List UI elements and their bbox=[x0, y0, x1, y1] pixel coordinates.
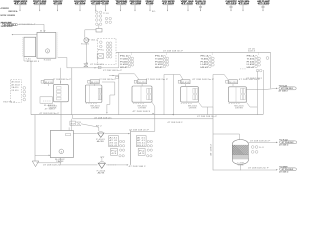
wire V-5 product line to oval tag O-1 bbox=[246, 88, 277, 90]
svg-text:DRYER: DRYER bbox=[189, 107, 198, 109]
svg-text:AT 4102: AT 4102 bbox=[11, 83, 20, 86]
label box above V-3 bbox=[134, 79, 169, 86]
svg-text:4T 108 2: 4T 108 2 bbox=[279, 91, 288, 93]
wire from T-1 bottom left down bbox=[24, 57, 31, 61]
svg-text:T-41: T-41 bbox=[25, 58, 31, 60]
wire V-5 outlet drop bbox=[246, 102, 257, 107]
vessel T-1 small tank bbox=[23, 37, 36, 56]
stirred tank B-1 bbox=[50, 127, 73, 157]
wire V-1 drop through headers into B-1 bbox=[60, 102, 62, 131]
instrument cluster station 3 bbox=[155, 53, 169, 69]
wire feed bridge to V-5 label box bbox=[213, 75, 228, 108]
svg-text:41: 41 bbox=[139, 153, 144, 155]
single instrument circle right of station 5 bbox=[266, 57, 269, 60]
svg-text:FIC 4: FIC 4 bbox=[247, 56, 255, 58]
wire dashes left of station 5 bbox=[240, 68, 246, 70]
wire vertical from header to feed line bbox=[118, 53, 120, 68]
svg-text:ST-4021: ST-4021 bbox=[81, 44, 89, 46]
wire left vertical drop to flag bbox=[34, 115, 36, 161]
arrow line out of reactor left side bbox=[12, 34, 38, 35]
svg-text:M-410: M-410 bbox=[182, 82, 190, 84]
svg-text:FIC 4: FIC 4 bbox=[201, 56, 209, 58]
header label text right bbox=[248, 49, 255, 53]
svg-text:TI 410: TI 410 bbox=[120, 59, 128, 61]
svg-text:LI 410: LI 410 bbox=[201, 64, 209, 66]
label under V-2 bbox=[86, 103, 100, 109]
drawing note text top-left bbox=[1, 8, 19, 17]
svg-text:HS 41: HS 41 bbox=[155, 67, 163, 69]
svg-text:K-4101: K-4101 bbox=[44, 105, 55, 107]
top inlet stream tag 12 with down arrow bbox=[195, 1, 207, 11]
svg-text:M-410: M-410 bbox=[229, 82, 237, 84]
wire V-4 outlet drop bbox=[198, 102, 213, 107]
svg-text:AT 41: AT 41 bbox=[137, 139, 145, 142]
svg-text:4T 051 2: 4T 051 2 bbox=[88, 39, 98, 41]
wire reactor bottom to left header drop bbox=[30, 61, 32, 115]
svg-text:M-410: M-410 bbox=[138, 82, 146, 84]
svg-text:4T 108 2: 4T 108 2 bbox=[211, 144, 213, 156]
svg-text:TO V-42: TO V-42 bbox=[279, 85, 288, 87]
wire station5 drops to bottom header bbox=[257, 70, 263, 115]
svg-text:TO WWT: TO WWT bbox=[279, 166, 289, 168]
svg-text:PI 410: PI 410 bbox=[120, 61, 128, 63]
control valve V-b bowtie bbox=[84, 64, 88, 67]
top inlet stream tag 8 with down arrow bbox=[130, 1, 143, 11]
svg-text:TI 410: TI 410 bbox=[155, 59, 163, 61]
svg-text:4T 208 108 2in P: 4T 208 108 2in P bbox=[53, 79, 72, 81]
instrument cluster station 2 bbox=[120, 53, 134, 69]
reactor R-1 agitated vessel bbox=[37, 31, 58, 59]
svg-text:NOTE 1 FEEDS: NOTE 1 FEEDS bbox=[1, 15, 16, 17]
svg-text:4T 208 108 3in P: 4T 208 108 3in P bbox=[163, 50, 184, 52]
svg-text:PI 410: PI 410 bbox=[155, 61, 163, 63]
label under V-4 bbox=[181, 103, 198, 109]
wire header drop right end bbox=[270, 53, 272, 89]
instrument cluster station 5 bbox=[247, 53, 261, 69]
top inlet stream tag 4 with down arrow bbox=[74, 1, 87, 11]
wire tag A to reactor top bbox=[18, 24, 44, 32]
svg-text:4T 208 108 2in P: 4T 208 108 2in P bbox=[192, 79, 215, 81]
wire B-1 bottom to pump P-2 bbox=[61, 158, 98, 165]
pump P-2 bbox=[98, 161, 105, 168]
flag connector bottom left bbox=[32, 161, 39, 167]
wire valve V-a down to valve V-b bbox=[85, 43, 87, 64]
svg-text:TI 01: TI 01 bbox=[103, 13, 109, 15]
svg-text:AI 41: AI 41 bbox=[137, 136, 145, 139]
svg-text:4T 208 108 2: 4T 208 108 2 bbox=[129, 166, 146, 168]
vessel V-5 with internals bbox=[228, 87, 246, 102]
svg-text:VT: VT bbox=[100, 157, 104, 159]
off-page oval tag O-3 bbox=[279, 166, 296, 173]
svg-text:LI 410: LI 410 bbox=[120, 64, 128, 66]
instrument circles right of column bbox=[251, 146, 265, 154]
svg-text:M-410: M-410 bbox=[91, 82, 99, 84]
top inlet stream tag 14 with down arrow bbox=[238, 0, 250, 11]
svg-text:4T 108 051: 4T 108 051 bbox=[90, 64, 104, 66]
svg-text:AI 41: AI 41 bbox=[109, 136, 117, 139]
wire drop x213 to bottom drain bbox=[211, 107, 213, 170]
top inlet stream tag 15 with down arrow bbox=[257, 0, 271, 11]
svg-text:4T 208 108 3in P: 4T 208 108 3in P bbox=[39, 113, 60, 115]
label box above V-4 bbox=[178, 79, 215, 86]
top inlet stream tag 3 with down arrow bbox=[53, 0, 63, 11]
svg-text:HS 41: HS 41 bbox=[201, 67, 209, 69]
svg-text:DRYER: DRYER bbox=[91, 107, 100, 109]
off-page oval tag O-2 bbox=[279, 139, 297, 146]
label box above V-2 bbox=[88, 79, 117, 86]
main header pipe line bbox=[116, 52, 271, 54]
top inlet stream tag 2 with down arrow bbox=[33, 1, 48, 11]
svg-text:HS 41: HS 41 bbox=[247, 67, 255, 69]
svg-text:TO F-42: TO F-42 bbox=[279, 139, 288, 141]
vessel V-3 with internals bbox=[132, 86, 152, 102]
instrument circles right of dashed box bbox=[23, 87, 26, 101]
pump P-1 discharge line bbox=[105, 133, 130, 134]
svg-text:4T 208 108 2in P: 4T 208 108 2in P bbox=[146, 79, 170, 81]
pump P-1 bbox=[73, 131, 104, 137]
left off-page connector oval tag A bbox=[2, 24, 17, 27]
packing hatch in column C-1 bbox=[208, 145, 260, 159]
wire vertical distribution to bottom header bbox=[71, 68, 73, 115]
svg-text:4T 208 108 2in P: 4T 208 108 2in P bbox=[103, 70, 123, 72]
svg-text:4T 108 2: 4T 108 2 bbox=[279, 145, 288, 147]
label box above V-1 bbox=[41, 79, 72, 86]
label under V-3 bbox=[133, 103, 147, 109]
svg-text:LI 410: LI 410 bbox=[155, 64, 163, 66]
svg-text:4T 108 2: 4T 108 2 bbox=[279, 171, 288, 173]
vent stub above pump P-2 bbox=[100, 156, 104, 161]
label box above V-5 bbox=[226, 79, 261, 86]
svg-text:AI 4102: AI 4102 bbox=[11, 81, 20, 84]
vessel V-1 with tray internals bbox=[53, 84, 68, 101]
svg-text:108 3: 108 3 bbox=[248, 51, 255, 53]
wire V-3 outlet drop to bottom section bbox=[152, 102, 155, 131]
label on column C-1 bottom bbox=[237, 162, 244, 166]
wire riser to pump P-1 bbox=[81, 124, 99, 131]
svg-text:4T 208 108 2in: 4T 208 108 2in bbox=[43, 165, 61, 167]
svg-text:AT 41: AT 41 bbox=[109, 139, 117, 142]
wire lower feed line y68 with arrow bbox=[67, 66, 119, 68]
analyzer instrument group A bbox=[109, 136, 125, 157]
svg-text:TI 410: TI 410 bbox=[247, 59, 255, 61]
label under V-1 bbox=[42, 103, 58, 109]
svg-text:COL: COL bbox=[238, 164, 244, 166]
agitator symbol in B-1 bbox=[59, 149, 64, 154]
instrument circles feed train top bbox=[96, 11, 112, 25]
top inlet stream tag 6 with down arrow bbox=[101, 1, 110, 11]
svg-text:NOTE 3: NOTE 3 bbox=[3, 102, 15, 104]
top inlet stream tag 7 with down arrow bbox=[116, 1, 129, 11]
svg-text:FIC 4: FIC 4 bbox=[155, 56, 163, 58]
recycle pipe line y121 bbox=[73, 118, 213, 120]
blower box K-1 bbox=[40, 97, 53, 103]
top inlet stream tag 10 with down arrow bbox=[162, 0, 176, 11]
column overhead line to oval O-2 bbox=[248, 142, 277, 143]
svg-text:HS 41: HS 41 bbox=[109, 145, 117, 147]
vertical manifold line x130.7 bbox=[131, 130, 155, 165]
wire feed bridge to V-4 label box bbox=[164, 75, 183, 115]
svg-text:HS 41: HS 41 bbox=[120, 67, 128, 69]
drain line bottom left bbox=[37, 162, 62, 164]
svg-text:REV 02 A: REV 02 A bbox=[9, 10, 19, 13]
svg-text:DRYER: DRYER bbox=[138, 107, 147, 109]
svg-text:TI 410: TI 410 bbox=[201, 59, 209, 61]
vessel V-4 with internals bbox=[181, 87, 199, 102]
label under V-5 bbox=[229, 103, 244, 109]
svg-text:4T 208 108 2: 4T 208 108 2 bbox=[167, 122, 182, 124]
extra circles under station 5 bbox=[256, 69, 262, 72]
svg-text:R-4101: R-4101 bbox=[44, 59, 51, 61]
wire column feed branch bbox=[213, 134, 240, 140]
svg-text:FIC 4: FIC 4 bbox=[120, 56, 128, 58]
svg-text:PI 410: PI 410 bbox=[247, 61, 255, 63]
bottom header pipe line bbox=[31, 114, 263, 116]
feed arrow into B-1 left bbox=[35, 155, 50, 156]
svg-text:4T 108 2: 4T 108 2 bbox=[45, 109, 55, 111]
valve cluster right of B-1 top bbox=[70, 119, 81, 131]
svg-text:41: 41 bbox=[111, 153, 116, 155]
off-page oval tag O-1 bbox=[279, 85, 297, 92]
top inlet stream tag 11 with down arrow bbox=[181, 0, 195, 11]
label under B-1 bbox=[55, 159, 65, 163]
svg-text:4T 208 108 3in P: 4T 208 108 3in P bbox=[197, 116, 218, 118]
svg-text:XA 410: XA 410 bbox=[11, 86, 18, 89]
top inlet stream tag 5 with down arrow bbox=[91, 1, 102, 11]
wire feed bridge to V-3 label box bbox=[109, 74, 139, 115]
wire reactor right outlet bbox=[58, 57, 67, 59]
svg-text:HS 41: HS 41 bbox=[137, 145, 145, 147]
svg-text:2in-XP-41023: 2in-XP-41023 bbox=[1, 26, 13, 28]
svg-text:4T 208 108 2in P: 4T 208 108 2in P bbox=[248, 167, 270, 169]
vessel V-2 with internals bbox=[85, 85, 102, 103]
svg-text:XS 410: XS 410 bbox=[11, 90, 18, 92]
svg-text:4T 208 108 2in: 4T 208 108 2in bbox=[94, 117, 111, 119]
top inlet stream tag 9 with down arrow bbox=[146, 0, 155, 11]
dashed instrument box left bbox=[11, 80, 22, 103]
instrument cluster station 4 bbox=[201, 53, 215, 69]
wire branch into V-1 top bbox=[60, 68, 61, 85]
pump P-2 discharge line bbox=[106, 164, 128, 165]
arrowhead on bottom header bbox=[172, 114, 174, 115]
packed column C-1 shell bbox=[232, 140, 248, 165]
svg-text:4T 208 108 2in P: 4T 208 108 2in P bbox=[129, 129, 150, 131]
svg-text:4T 208 108 2in P: 4T 208 108 2in P bbox=[250, 141, 271, 143]
analyzer instrument group B bbox=[136, 136, 152, 157]
steam trap circle valve V-a bbox=[81, 38, 89, 46]
valve box in interlock box bbox=[97, 54, 103, 59]
label under blower box bbox=[44, 105, 55, 111]
svg-text:4T 208 108 2: 4T 208 108 2 bbox=[246, 78, 262, 80]
bottom drain line to oval O-3 bbox=[213, 169, 278, 170]
svg-text:M-410: M-410 bbox=[45, 82, 53, 84]
svg-text:PI 410: PI 410 bbox=[201, 61, 209, 63]
wire column bottom stub bbox=[239, 164, 241, 170]
top inlet stream tag 13 with down arrow bbox=[226, 0, 239, 11]
agitator symbol in reactor R-1 bbox=[45, 49, 49, 53]
svg-text:DRYER: DRYER bbox=[235, 107, 244, 109]
svg-text:LI 410: LI 410 bbox=[247, 64, 255, 66]
wire V-2 outlet routing with down arrow bbox=[102, 82, 115, 114]
wire from filter box to valve V-a bbox=[85, 30, 96, 38]
svg-text:4T 208 108 3: 4T 208 108 3 bbox=[132, 111, 150, 113]
svg-text:4T 208 051 8: 4T 208 051 8 bbox=[27, 61, 39, 63]
svg-text:4T 208 108 2in P: 4T 208 108 2in P bbox=[99, 79, 117, 81]
top inlet stream tag 1 with down arrow bbox=[14, 0, 29, 11]
filter box F-1 bbox=[96, 29, 102, 33]
svg-text:4TXXPFD: 4TXXPFD bbox=[1, 8, 10, 10]
dashed interlock box U-1 with instrument circles bbox=[98, 38, 116, 64]
